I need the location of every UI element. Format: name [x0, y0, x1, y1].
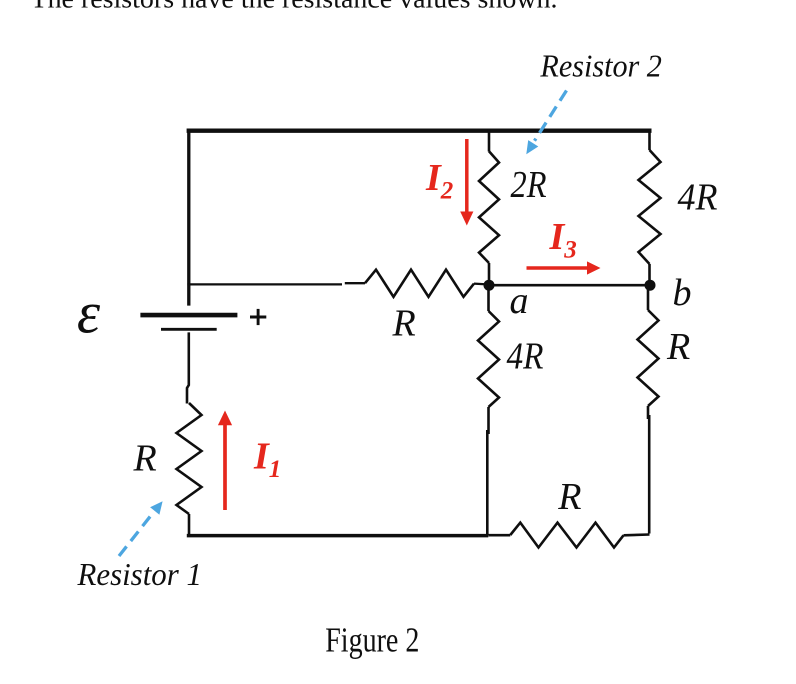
node b junction dot	[645, 280, 656, 291]
wire resistor R1 bottom lead	[188, 514, 191, 534]
svg-text:R: R	[133, 438, 157, 480]
wire middle horizontal (battery junction to resistor R)	[187, 283, 342, 285]
annotation arrow to resistor 2 (blue dashed)	[526, 91, 566, 155]
svg-text:R: R	[557, 476, 581, 518]
svg-text:Figure 2: Figure 2	[325, 620, 419, 659]
wire battery negative plate down to resistor R1	[187, 332, 189, 403]
resistor 4R right zigzag	[639, 150, 661, 264]
plus sign label of battery	[250, 309, 266, 325]
svg-text:2R: 2R	[511, 164, 547, 206]
svg-text:The resistors have the resista: The resistors have the resistance values…	[31, 0, 558, 14]
current arrow I1 (red, pointing up)	[218, 411, 232, 511]
svg-text:a: a	[510, 280, 529, 322]
resistor 2R: top lead	[488, 129, 491, 152]
resistor R bottom zigzag	[510, 523, 623, 548]
svg-text:Resistor 2: Resistor 2	[539, 48, 661, 84]
resistor R below node b: top lead	[647, 288, 650, 310]
wire R below b bottom lead (with hand-drawn jog)	[647, 406, 650, 419]
svg-text:ε: ε	[77, 280, 101, 346]
wire 4R right bottom lead to node b	[648, 264, 651, 282]
resistor 2R zigzag	[479, 151, 499, 263]
svg-text:4R: 4R	[507, 336, 544, 378]
wire 4R below a bottom lead (with hand-drawn jog)	[487, 407, 490, 434]
resistor R middle horizontal: lead	[345, 282, 365, 284]
resistor R middle horizontal zigzag	[365, 270, 474, 297]
current arrow I3 (red, pointing right)	[527, 261, 601, 274]
resistor R1 (left, value R)	[177, 403, 202, 514]
wire node a to node b	[489, 284, 650, 287]
svg-text:b: b	[673, 272, 692, 314]
wire left vertical (top wire down to battery + plate)	[187, 129, 190, 306]
svg-text:R: R	[666, 326, 690, 368]
annotation arrow to resistor 1 (blue dashed)	[119, 501, 163, 556]
svg-text:4R: 4R	[678, 177, 718, 219]
resistor 4R below node a: top lead	[487, 288, 490, 311]
wire 2R bottom lead to node a	[488, 263, 491, 282]
node a junction dot	[484, 280, 495, 291]
wire lead into node a	[474, 282, 487, 285]
wire bottom resistor right lead	[624, 533, 650, 536]
wire top (from top-left corner to top-right corner)	[187, 129, 652, 133]
resistor 4R right: top lead	[648, 129, 651, 150]
resistor 4R below a zigzag	[478, 311, 499, 407]
resistor R bottom horizontal: left lead	[488, 534, 510, 537]
resistor R below b zigzag	[638, 310, 659, 406]
wire bottom (left section)	[187, 534, 489, 538]
current arrow I2 (red, pointing down)	[460, 139, 473, 226]
battery EMF source (two plates)	[140, 315, 237, 329]
svg-text:Resistor 1: Resistor 1	[77, 556, 202, 592]
svg-text:R: R	[392, 303, 416, 345]
